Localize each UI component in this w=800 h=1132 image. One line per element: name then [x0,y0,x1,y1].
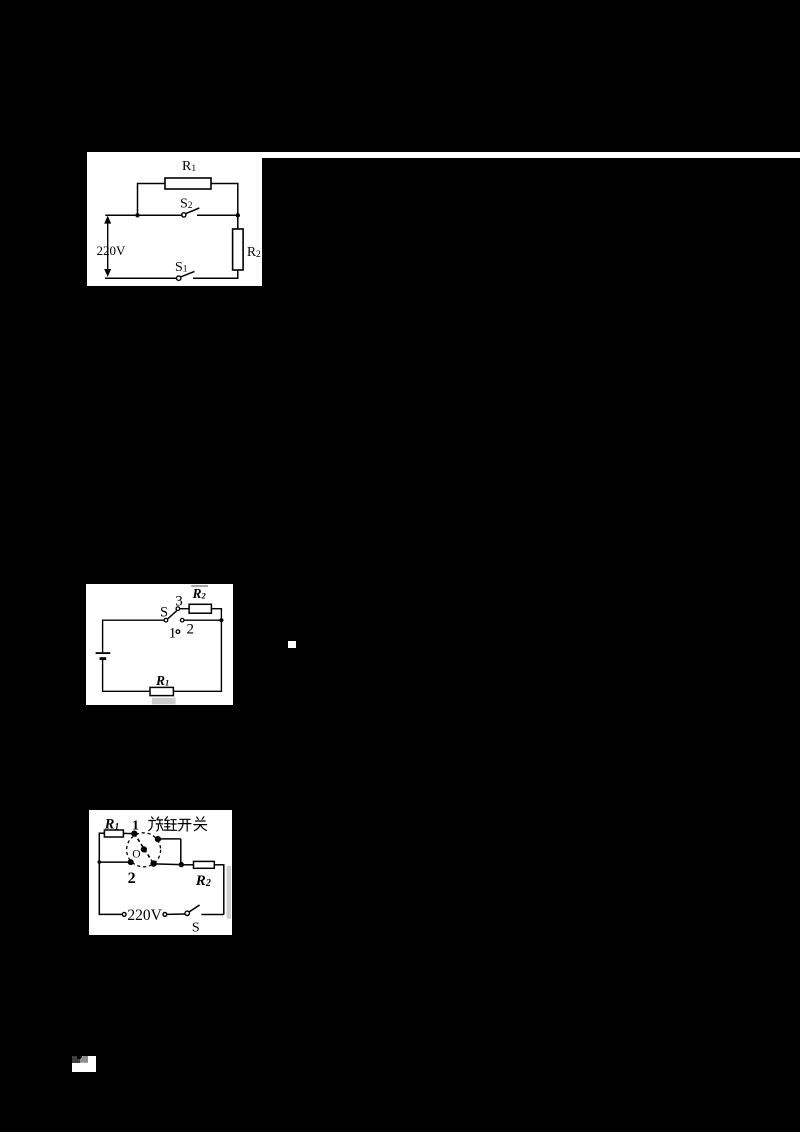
contact 2 dot (bottom left) [127,859,133,865]
wire: bottom rail left of switch S1 [105,277,177,279]
gray tick above R2 label [191,585,208,587]
circuit 1 schematic [87,152,262,286]
contact 1 dot [131,831,137,837]
circuit 2 schematic [86,584,233,705]
resistor R1 [150,687,173,695]
wire: middle rail right of switch S2 [197,214,238,216]
svg-text:1: 1 [169,625,177,641]
label knob switch (xuan niu kai guan) [148,817,206,831]
wire: middle rail left segment [99,861,130,863]
wire: bottom rail left of R1 [103,690,150,692]
resistor R1 [165,178,211,189]
figure 3 white panel [89,810,233,935]
resistor R2 [233,229,244,270]
switch S1 [177,271,195,280]
wire: R1 to right vertical [211,183,238,185]
node: junction dot left [135,213,139,217]
terminal circle left [122,913,126,917]
resistor R2 [193,861,214,868]
contact 2 [180,618,184,622]
svg-text:S1: S1 [175,260,188,275]
wire: battery top lead [102,619,104,652]
bottom-left stray mark: medium gray chip [80,1056,88,1063]
wire: right vertical [220,608,222,692]
svg-text:R1: R1 [103,817,118,833]
wire: corner down to junction [179,839,181,865]
svg-text:R2: R2 [192,585,207,600]
bottom-left stray mark: dark gray chip [72,1056,80,1063]
wire: top left segment to R1 [138,183,166,185]
wire: R1 to contact 1 [123,832,134,834]
switch S blade [168,610,177,618]
wire: right vertical [222,864,224,914]
contact 1 [176,629,180,633]
knob switch dashed circle [126,833,160,867]
switch hinge [164,618,168,622]
svg-text:220V: 220V [97,243,127,258]
wire: bottom rail right of R1 [173,690,222,692]
wire: top rail to R1 [99,832,104,834]
gray strip right [226,866,230,919]
wire: middle rail right segment to junction [153,863,181,866]
figure 2 white panel [86,584,233,705]
knob center dot O [140,846,146,852]
node: junction dot right rail [219,618,223,622]
wire: battery bottom lead [102,659,104,692]
node: junction dot before R2 [178,862,183,867]
glyph niu [164,817,176,831]
svg-text:O: O [132,848,140,860]
svg-text:2: 2 [187,621,195,637]
svg-text:R2: R2 [247,244,261,260]
wire: right terminal to switch S [166,913,185,915]
svg-text:S: S [160,604,168,620]
svg-text:S2: S2 [180,197,193,212]
gray patch bottom [152,697,176,704]
node: junction dot right [236,213,240,217]
wire: switch to right vertical [201,914,223,916]
switch S blade [189,905,199,912]
battery cell [96,653,111,659]
figure 1 white panel [87,152,262,286]
wire: bottom rail to left terminal [99,913,122,915]
wire: contact 3 to R2 [180,607,189,609]
svg-text:1: 1 [132,819,139,834]
svg-text:S: S [191,921,199,936]
svg-text:2: 2 [127,870,135,887]
source arrow 220V [104,216,111,277]
wire: top rail from battery to switch S [103,619,165,621]
wire: top-right contact to corner [157,838,180,840]
switch S hinge circle [185,911,189,915]
wire: middle rail left of switch S2 [105,214,182,216]
wire: R2 to right corner [214,864,224,866]
glyph kai [178,819,191,831]
svg-text:R2: R2 [194,873,210,889]
wire: left vertical [98,833,100,916]
wire: left vertical from top to middle node [137,183,139,215]
wire: bottom rail right of switch S1 [193,277,239,279]
circuit 3 schematic [89,810,233,935]
node: junction small dot on left vertical [97,860,101,864]
wire: junction to R2 [181,864,193,866]
stray white square right of figure 2 [288,641,296,648]
wire: R2 bottom to bottom rail [237,270,239,279]
wire: right vertical from top to R2 [237,183,239,229]
contact top-right dot [154,836,160,842]
contact 3 [176,606,180,610]
switch S2 [182,208,200,217]
bottom-left stray mark: white base [72,1056,96,1072]
svg-text:R1: R1 [182,159,196,174]
resistor R2 [189,604,211,613]
contact bottom-right dot [150,860,156,866]
resistor R1 [104,830,123,837]
svg-text:3: 3 [175,593,183,609]
white strip top right of figure 1 [87,152,800,158]
terminal circle right [163,913,167,917]
wire: R2 to right corner [211,607,221,609]
bottom-left stray mark: black notch [77,1056,82,1059]
knob pointer (dashed blade) [134,834,153,864]
glyph xuan [148,817,162,831]
svg-text:R1: R1 [155,673,169,688]
glyph guan [193,817,206,831]
svg-text:220V: 220V [127,907,162,924]
wire: contact 2 rail to right vertical [184,619,221,621]
